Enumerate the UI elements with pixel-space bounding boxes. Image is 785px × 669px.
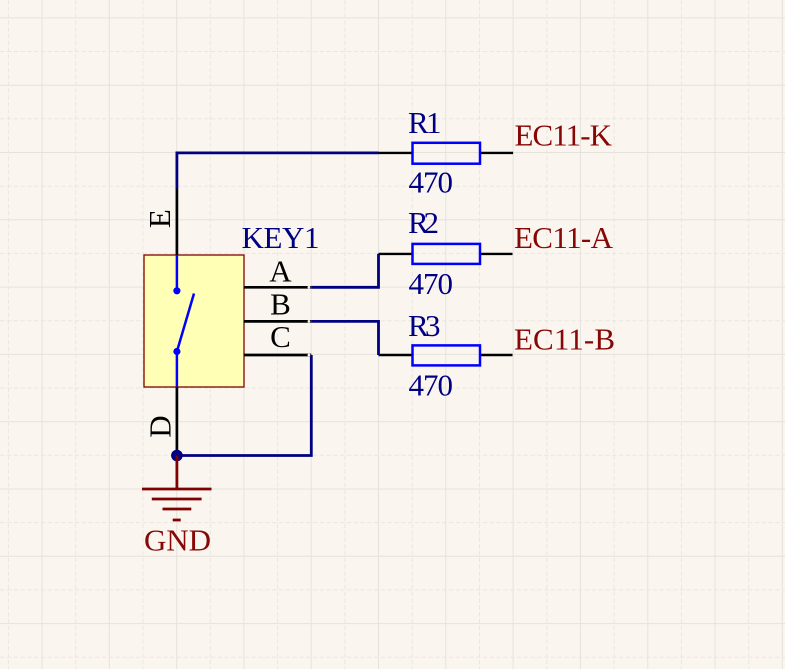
svg-text:B: B	[270, 287, 291, 322]
svg-text:R1: R1	[408, 105, 442, 140]
svg-text:A: A	[269, 253, 292, 288]
svg-text:C: C	[270, 319, 291, 354]
svg-text:KEY1: KEY1	[242, 220, 320, 255]
svg-text:GND: GND	[144, 523, 211, 558]
svg-text:EC11-A: EC11-A	[514, 220, 614, 255]
svg-text:470: 470	[409, 368, 454, 403]
svg-text:D: D	[143, 415, 178, 437]
svg-text:R3: R3	[408, 308, 441, 343]
svg-text:E: E	[142, 209, 177, 228]
svg-text:EC11-K: EC11-K	[515, 118, 613, 153]
svg-text:EC11-B: EC11-B	[514, 322, 615, 357]
svg-text:R2: R2	[408, 205, 439, 240]
svg-text:470: 470	[409, 266, 454, 301]
svg-text:470: 470	[409, 165, 454, 200]
